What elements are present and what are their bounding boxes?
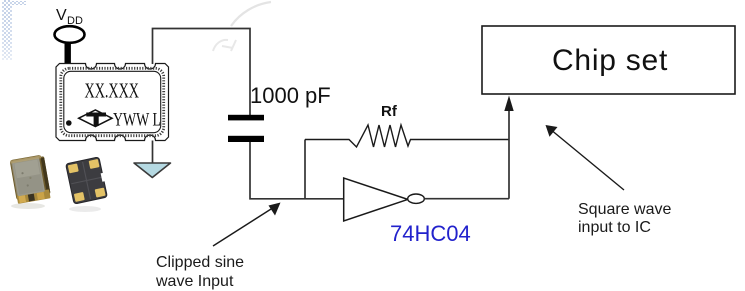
inverter U1 triangle [344, 178, 408, 221]
svg-text:Chip set: Chip set [552, 44, 668, 77]
svg-text:Clipped sine: Clipped sine [156, 254, 244, 271]
photo left chip [10, 155, 51, 209]
wire package to ground [152, 141, 154, 164]
Vdd pin ellipse [55, 26, 85, 43]
wire capacitor bottom to input node [250, 142, 344, 199]
ground symbol [134, 163, 171, 178]
svg-text:input to IC: input to IC [578, 219, 651, 236]
capacitor C1 top plate [228, 115, 264, 121]
svg-text:1000 pF: 1000 pF [250, 83, 331, 108]
Vdd stem [65, 42, 71, 65]
svg-text:74HC04: 74HC04 [390, 221, 471, 246]
svg-text:Rf: Rf [381, 103, 398, 120]
oscillator package outer outline with notches [56, 64, 169, 141]
svg-text:XX.XXX: XX.XXX [85, 79, 140, 103]
wire: package top to capacitor top (up-over-down) [153, 29, 251, 116]
inverter bubble [408, 194, 425, 203]
pin1 dot [66, 120, 72, 126]
logo diamond T [79, 110, 112, 127]
svg-text:V: V [56, 7, 67, 24]
feedback riser left [304, 140, 306, 199]
watermark mark [213, 40, 236, 51]
rope hatch ring [61, 68, 164, 135]
svg-text:YWW L: YWW L [113, 110, 161, 131]
wire inverter output [424, 198, 509, 200]
chip set box [482, 26, 735, 94]
feedback wire with resistor Rf [305, 125, 509, 147]
photo right chip [66, 157, 110, 212]
svg-text:wave Input: wave Input [155, 273, 234, 290]
capacitor C1 bottom plate [228, 136, 264, 142]
wire riser to chip set with arrowhead [508, 108, 510, 199]
annotation arrow clipped sine [213, 207, 275, 247]
inner outline [64, 71, 161, 132]
annotation arrow square wave [550, 129, 624, 190]
watermark arc [231, 2, 271, 26]
svg-text:Square wave: Square wave [578, 201, 671, 218]
